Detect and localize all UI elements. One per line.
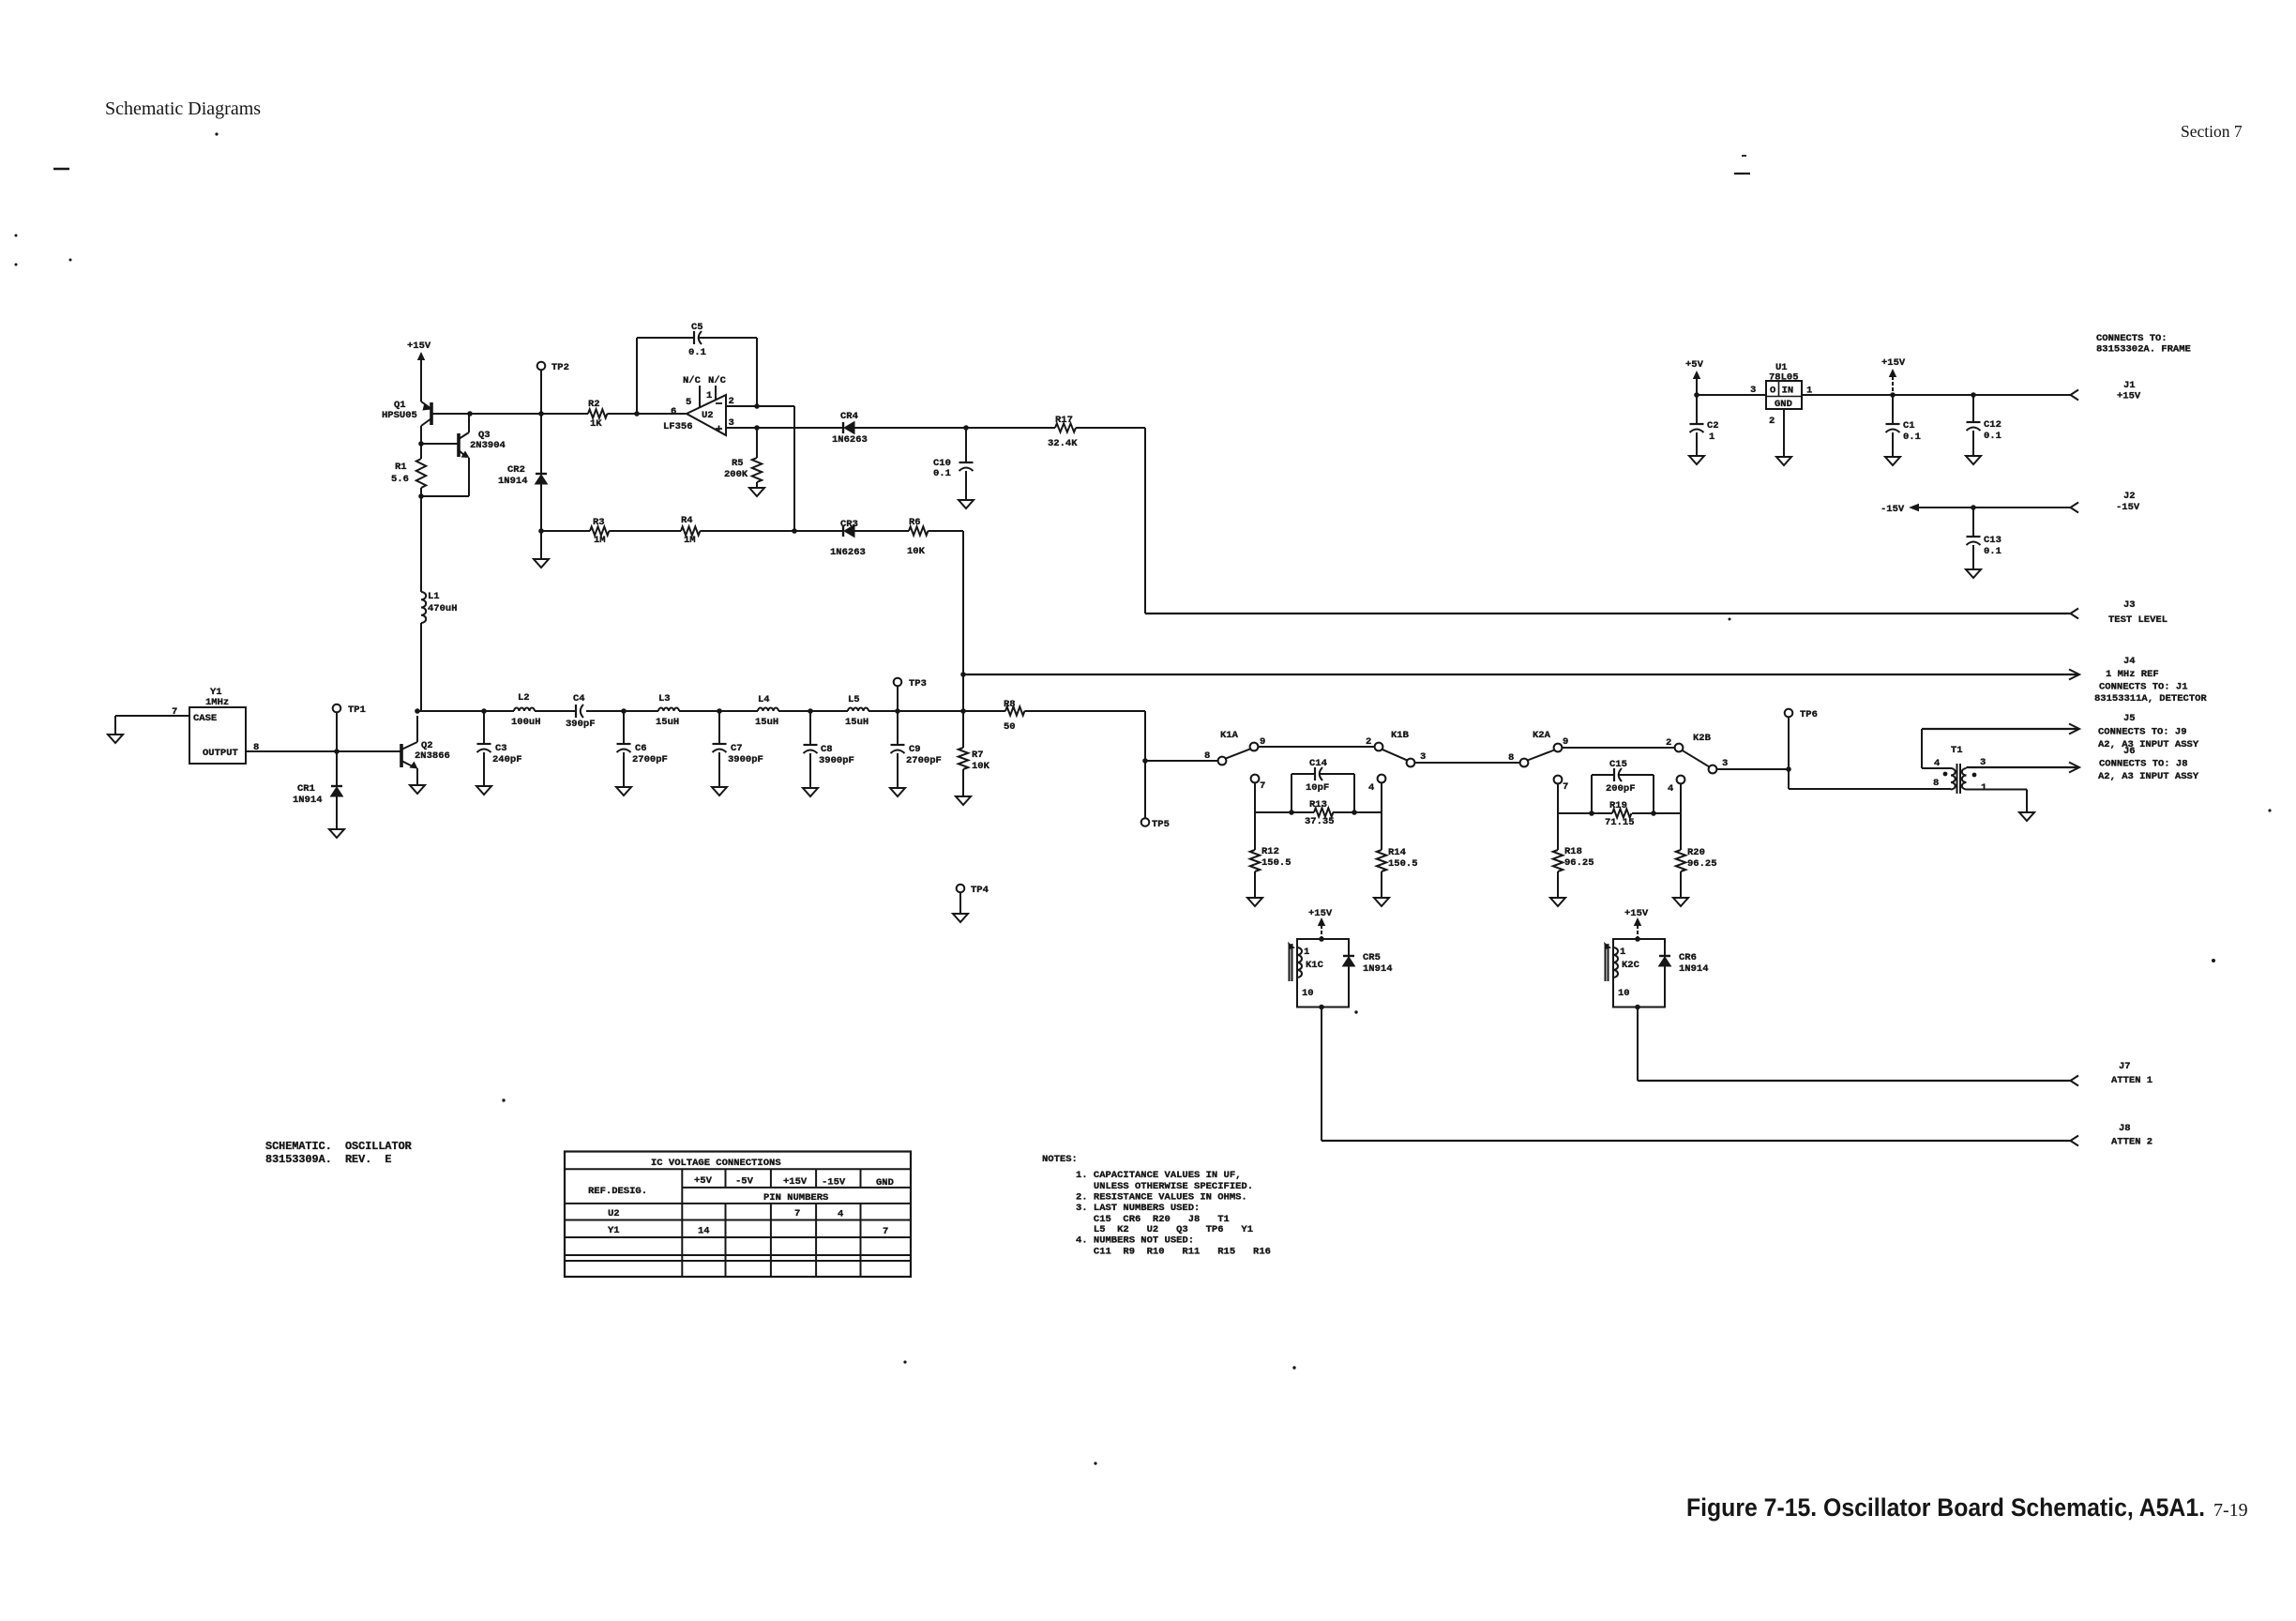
svg-text:C15: C15 bbox=[1609, 759, 1627, 770]
ground below TP4 bbox=[953, 914, 968, 922]
svg-text:R6: R6 bbox=[909, 517, 921, 528]
inductor L3 bbox=[658, 708, 679, 711]
resistor R18 bbox=[1557, 813, 1559, 850]
svg-text:150.5: 150.5 bbox=[1388, 858, 1418, 870]
wire L1 to Q2 collector node bbox=[420, 623, 422, 711]
svg-text:4: 4 bbox=[838, 1209, 843, 1220]
node C15 left junction bbox=[1589, 810, 1594, 816]
diode CR6 bbox=[1659, 955, 1670, 957]
connector J8 arrowhead bbox=[2071, 1136, 2079, 1146]
resistor R3 bbox=[590, 526, 609, 535]
capacitor C14 bbox=[1314, 767, 1316, 780]
svg-text:+15V: +15V bbox=[783, 1176, 808, 1188]
inductor L4 bbox=[758, 708, 778, 711]
wire C14 top right bbox=[1320, 773, 1354, 775]
wire C7 stem bbox=[718, 711, 720, 744]
wire C9 ground lead bbox=[897, 753, 899, 788]
wire K1C bottom to J8 line bbox=[1321, 1007, 1322, 1142]
svg-text:14: 14 bbox=[698, 1226, 710, 1237]
wire junction to Q3 base bbox=[421, 443, 459, 445]
svg-text:J2: J2 bbox=[2123, 491, 2136, 502]
ground below C12 bbox=[1966, 456, 1981, 464]
wire C6 ground lead bbox=[623, 752, 625, 787]
node +5V / C2 junction bbox=[1694, 392, 1699, 398]
node pin3 / R5 junction bbox=[754, 425, 760, 431]
wire C14 right riser bbox=[1353, 774, 1355, 812]
transformer T1 primary winding bbox=[1951, 768, 1956, 790]
node R1 bottom junction bbox=[418, 493, 424, 499]
wire C12 to ground bbox=[1972, 431, 1974, 456]
connector J7 arrowhead bbox=[2071, 1076, 2079, 1086]
svg-text:R17: R17 bbox=[1055, 415, 1073, 426]
wire C15 top left bbox=[1592, 774, 1614, 776]
svg-text:32.4K: 32.4K bbox=[1048, 438, 1078, 449]
svg-text:3: 3 bbox=[729, 417, 734, 429]
svg-text:96.25: 96.25 bbox=[1564, 857, 1594, 869]
svg-text:C8: C8 bbox=[821, 744, 833, 755]
test point TP4 bbox=[957, 885, 965, 893]
node C8 junction bbox=[808, 708, 813, 714]
svg-text:K2C: K2C bbox=[1622, 960, 1640, 971]
svg-text:C12: C12 bbox=[1984, 419, 2001, 431]
svg-text:UNLESS OTHERWISE SPECIFIED.: UNLESS OTHERWISE SPECIFIED. bbox=[1076, 1181, 1253, 1192]
svg-text:R19: R19 bbox=[1609, 800, 1627, 811]
svg-text:10K: 10K bbox=[972, 761, 990, 772]
node J4 junction bbox=[960, 672, 966, 677]
resistor R1 bbox=[420, 444, 422, 459]
svg-text:1K: 1K bbox=[590, 418, 602, 430]
wire K1A to K1B bbox=[1258, 746, 1374, 748]
test point TP2 bbox=[537, 362, 546, 371]
connector J5 arrowhead bbox=[2069, 724, 2079, 735]
svg-text:LF356: LF356 bbox=[663, 421, 693, 432]
svg-text:2: 2 bbox=[1769, 416, 1775, 427]
svg-text:1. CAPACITANCE VALUES IN UF,: 1. CAPACITANCE VALUES IN UF, bbox=[1076, 1170, 1241, 1181]
capacitor C4 (series) bbox=[575, 704, 577, 718]
svg-text:+15V: +15V bbox=[1881, 357, 1906, 369]
svg-text:A2, A3 INPUT ASSY: A2, A3 INPUT ASSY bbox=[2098, 771, 2199, 782]
capacitor C8 bbox=[804, 744, 818, 746]
diode CR2 bbox=[536, 473, 547, 475]
capacitor C6 bbox=[617, 743, 631, 745]
pin 1 N/C stub bbox=[715, 386, 717, 400]
wire R7 to ground bbox=[962, 769, 964, 796]
node C6 junction bbox=[621, 708, 627, 714]
resistor R7 bbox=[959, 748, 968, 769]
svg-text:Y1: Y1 bbox=[608, 1225, 620, 1236]
capacitor C1 bbox=[1892, 395, 1894, 424]
svg-text:R8: R8 bbox=[1004, 699, 1016, 710]
ground below T1 pin 1 bbox=[2019, 812, 2034, 821]
wire C3 ground lead bbox=[483, 752, 485, 786]
svg-text:R1: R1 bbox=[395, 462, 407, 473]
node C7 junction bbox=[717, 708, 722, 714]
regulator U1 78L05 box bbox=[1766, 381, 1802, 409]
svg-text:C11 R9 R10 R11 R15 R16: C11 R9 R10 R11 R15 R16 bbox=[1076, 1247, 1271, 1258]
svg-text:200K: 200K bbox=[724, 469, 748, 480]
svg-text:100uH: 100uH bbox=[511, 717, 541, 728]
svg-text:9: 9 bbox=[1563, 736, 1568, 748]
svg-text:R4: R4 bbox=[681, 515, 693, 526]
svg-text:2700pF: 2700pF bbox=[632, 754, 668, 765]
node CR2 bottom junction row B bbox=[538, 528, 544, 534]
capacitor C15 bbox=[1613, 768, 1615, 781]
wire C8 stem bbox=[809, 711, 811, 745]
svg-text:C4: C4 bbox=[573, 693, 585, 704]
svg-text:4: 4 bbox=[1934, 758, 1940, 769]
node opamp output / C5 junction bbox=[634, 411, 640, 417]
svg-text:J1: J1 bbox=[2123, 380, 2136, 391]
svg-text:C14: C14 bbox=[1309, 758, 1327, 769]
wire R2 to opamp output node bbox=[607, 413, 687, 415]
wire bus node down to R7 bbox=[962, 711, 964, 748]
svg-text:5: 5 bbox=[686, 397, 691, 408]
diode CR5 bbox=[1343, 955, 1354, 957]
svg-text:J8: J8 bbox=[2119, 1123, 2131, 1134]
ground below Q2 bbox=[410, 785, 425, 794]
wire C6 stem bbox=[623, 711, 625, 744]
resistor R14 bbox=[1381, 812, 1382, 850]
wire C5 left riser bbox=[636, 338, 638, 414]
wire down to ground below row B bbox=[540, 531, 542, 559]
node K2C bottom junction bbox=[1635, 1005, 1640, 1010]
svg-text:1N914: 1N914 bbox=[498, 476, 528, 487]
power +5V arrow bbox=[1693, 371, 1700, 379]
relay pin 4 contact (K1) bbox=[1378, 775, 1386, 783]
svg-text:10: 10 bbox=[1618, 988, 1630, 999]
wire J5 line bbox=[1922, 728, 2077, 730]
resistor R8 bbox=[1005, 706, 1024, 715]
ground below R5 bbox=[756, 482, 758, 488]
svg-text:7-19: 7-19 bbox=[2213, 1500, 2248, 1521]
capacitor C10 bbox=[959, 462, 974, 463]
svg-text:3900pF: 3900pF bbox=[819, 755, 854, 766]
svg-text:HPSU05: HPSU05 bbox=[382, 410, 417, 421]
node C10 junction bbox=[963, 425, 969, 431]
wire TP2 stem bbox=[540, 371, 542, 415]
wire TP1 stem bbox=[336, 713, 338, 752]
test point TP1 bbox=[333, 704, 341, 713]
wire C10 node to R17 bbox=[966, 427, 1055, 429]
svg-text:C6: C6 bbox=[635, 743, 647, 754]
node TP1 junction bbox=[334, 749, 340, 754]
wire Y1 case to ground bbox=[115, 715, 189, 717]
capacitor C12 bbox=[1972, 395, 1974, 422]
inductor L2 bbox=[514, 708, 535, 711]
svg-text:TP4: TP4 bbox=[971, 885, 989, 896]
wire TP3 node down to C9 bbox=[897, 711, 899, 745]
svg-text:+15V: +15V bbox=[1624, 908, 1649, 919]
wire R14 to ground bbox=[1381, 871, 1382, 898]
capacitor C2 bbox=[1696, 395, 1698, 424]
ground below C3 bbox=[476, 786, 491, 795]
node C14 right junction bbox=[1352, 810, 1357, 815]
wire J4 line bbox=[963, 674, 2077, 675]
svg-text:L2: L2 bbox=[518, 692, 530, 704]
svg-text:50: 50 bbox=[1004, 721, 1016, 733]
wire row B left segment bbox=[541, 530, 590, 532]
svg-text:REF.DESIG.: REF.DESIG. bbox=[588, 1186, 647, 1197]
wire C3 stem bbox=[483, 711, 485, 744]
svg-text:R13: R13 bbox=[1309, 799, 1327, 810]
svg-text:ATTEN 1: ATTEN 1 bbox=[2111, 1075, 2152, 1086]
svg-text:-15V: -15V bbox=[822, 1177, 846, 1189]
connector J1 arrowhead bbox=[2071, 390, 2079, 401]
svg-text:J4: J4 bbox=[2123, 656, 2136, 667]
wire pin2 corner down to row B bbox=[793, 406, 795, 531]
svg-text:8: 8 bbox=[1933, 778, 1939, 789]
svg-text:CR3: CR3 bbox=[840, 519, 858, 530]
svg-text:-15V: -15V bbox=[2116, 502, 2140, 513]
svg-text:TP1: TP1 bbox=[348, 704, 366, 716]
svg-text:CONNECTS TO:: CONNECTS TO: bbox=[2096, 333, 2168, 344]
wire U1 gnd pin down bbox=[1783, 409, 1785, 457]
svg-text:CR1: CR1 bbox=[297, 783, 315, 795]
svg-text:1M: 1M bbox=[684, 535, 696, 546]
svg-text:7: 7 bbox=[1563, 781, 1568, 793]
diode CR4 bbox=[842, 422, 844, 433]
svg-text:7: 7 bbox=[883, 1226, 888, 1237]
wire TP2 node down to CR2 bbox=[540, 414, 542, 474]
connector J6 arrowhead bbox=[2069, 763, 2079, 773]
power +15V arrow above K2C bbox=[1634, 917, 1641, 926]
test point TP6 bbox=[1785, 709, 1793, 718]
wire J7 line bbox=[1638, 1080, 2071, 1082]
relay pin 4 contact (K2) bbox=[1677, 776, 1685, 784]
relay contact K2A bbox=[1520, 759, 1529, 767]
opamp plus sign bbox=[716, 428, 722, 430]
svg-text:8: 8 bbox=[1204, 750, 1210, 762]
relay coil box K2C bbox=[1613, 939, 1665, 1007]
svg-text:A2, A3 INPUT ASSY: A2, A3 INPUT ASSY bbox=[2098, 739, 2199, 750]
pin 5 N/C stub bbox=[699, 386, 701, 407]
wire C14 top left bbox=[1291, 773, 1315, 775]
wire C15 right riser bbox=[1653, 775, 1654, 813]
svg-text:1: 1 bbox=[1620, 947, 1625, 958]
svg-text:2: 2 bbox=[729, 396, 734, 407]
svg-text:6: 6 bbox=[671, 406, 676, 417]
svg-text:390pF: 390pF bbox=[566, 719, 596, 730]
node bus junction at R7 column bbox=[960, 708, 966, 714]
power +15V arrow (J1 row) bbox=[1889, 369, 1896, 377]
relay contact K1A bbox=[1218, 757, 1227, 765]
wire R4 to pin2 corner node bbox=[700, 530, 794, 532]
node pin2 / C5 junction bbox=[754, 403, 760, 409]
capacitor C13 bbox=[1972, 508, 1974, 537]
svg-text:15uH: 15uH bbox=[656, 717, 679, 728]
svg-text:CASE: CASE bbox=[193, 713, 217, 724]
wire TP6 stem bbox=[1788, 718, 1790, 770]
wire CR1 to ground bbox=[336, 796, 338, 829]
svg-text:TP2: TP2 bbox=[551, 362, 569, 373]
relay pin 7 contact (K2) bbox=[1554, 776, 1563, 784]
ground below R7 bbox=[956, 796, 971, 805]
wire junction to CR3 bbox=[794, 530, 843, 532]
svg-text:4: 4 bbox=[1368, 782, 1374, 794]
svg-text:CONNECTS TO: J1: CONNECTS TO: J1 bbox=[2099, 682, 2188, 693]
svg-text:4: 4 bbox=[1668, 783, 1673, 795]
svg-text:0.1: 0.1 bbox=[933, 468, 951, 479]
svg-text:1MHz: 1MHz bbox=[205, 697, 229, 708]
resistor R12 bbox=[1254, 812, 1256, 850]
svg-text:83153302A. FRAME: 83153302A. FRAME bbox=[2096, 344, 2191, 356]
wire CR3 to R6 bbox=[854, 530, 909, 532]
node TP5 junction bbox=[1142, 758, 1148, 764]
svg-text:78L05: 78L05 bbox=[1769, 372, 1799, 384]
svg-text:TP3: TP3 bbox=[909, 678, 927, 689]
node C13 junction bbox=[1971, 505, 1976, 510]
svg-text:C1: C1 bbox=[1903, 420, 1915, 432]
node row B / pin2 riser junction bbox=[792, 528, 797, 534]
svg-text:U2: U2 bbox=[608, 1208, 620, 1220]
svg-text:7: 7 bbox=[1260, 780, 1265, 792]
diode CR1 bbox=[331, 785, 342, 787]
wire pin4 to rail (K1) bbox=[1381, 782, 1382, 812]
wire R6 to corner down bbox=[928, 530, 963, 532]
test point TP5 bbox=[1141, 818, 1150, 826]
capacitor C7 bbox=[713, 743, 727, 745]
svg-text:+15V: +15V bbox=[2117, 391, 2141, 402]
resistor R5 bbox=[756, 428, 758, 458]
svg-text:2700pF: 2700pF bbox=[906, 755, 942, 766]
svg-text:1: 1 bbox=[1709, 432, 1714, 443]
svg-text:GND: GND bbox=[1775, 399, 1792, 410]
transistor Q2 2N3866 bbox=[400, 744, 403, 767]
wire TP3 stem bbox=[897, 687, 899, 712]
svg-text:K2A: K2A bbox=[1533, 730, 1551, 741]
relay contact K1B bbox=[1375, 743, 1383, 751]
ground below R12 bbox=[1247, 898, 1262, 906]
node TP2 junction on row bbox=[538, 411, 544, 417]
svg-text:3: 3 bbox=[1750, 385, 1756, 396]
resistor R17 bbox=[1055, 423, 1076, 432]
node Q1 base / Q3 collector junction bbox=[467, 411, 473, 417]
svg-text:1N914: 1N914 bbox=[1363, 963, 1393, 975]
wire C10 stem bbox=[965, 428, 967, 462]
wire pin7 to rail (K1) bbox=[1254, 782, 1256, 812]
svg-text:83153311A, DETECTOR: 83153311A, DETECTOR bbox=[2094, 693, 2207, 704]
svg-text:L1: L1 bbox=[428, 591, 440, 602]
wire R18 to ground bbox=[1557, 871, 1559, 898]
svg-text:K1B: K1B bbox=[1391, 730, 1410, 741]
wire TP6 node down and right to T1 pin 8 bbox=[1788, 769, 1790, 789]
transistor Q1 HPSU05 bbox=[430, 402, 433, 425]
wire C1 to ground bbox=[1892, 432, 1894, 457]
svg-text:NOTES:: NOTES: bbox=[1042, 1154, 1078, 1165]
svg-text:240pF: 240pF bbox=[492, 754, 522, 765]
ground below R14 bbox=[1374, 898, 1389, 906]
wire TP4 stem bbox=[959, 893, 961, 915]
wire C8 ground lead bbox=[809, 753, 811, 788]
node C15 right junction bbox=[1651, 810, 1656, 816]
wire R12 to ground bbox=[1254, 871, 1256, 898]
ground below R18 bbox=[1550, 898, 1565, 906]
wire CR4 to C10 node bbox=[854, 427, 966, 429]
svg-text:+5V: +5V bbox=[1685, 359, 1704, 371]
pin 2 wire from opamp bbox=[726, 405, 794, 407]
ground below CR2 node bbox=[534, 559, 549, 568]
power +15V arrow above K1C bbox=[1318, 917, 1325, 926]
svg-text:K1A: K1A bbox=[1220, 730, 1239, 741]
wire C5 right riser to pin 2 node bbox=[756, 338, 758, 406]
wire TP5 drop bbox=[1144, 761, 1146, 818]
wire C5 top left segment bbox=[637, 337, 694, 339]
wire TP1 node down to CR1 bbox=[336, 751, 338, 786]
wire J8 line bbox=[1322, 1140, 2071, 1142]
resistor R2 bbox=[588, 409, 607, 417]
svg-text:0.1: 0.1 bbox=[1984, 546, 2001, 557]
svg-text:C7: C7 bbox=[731, 743, 743, 754]
svg-text:7: 7 bbox=[794, 1208, 800, 1220]
ground below C1 bbox=[1885, 457, 1900, 465]
transformer T1 core bbox=[1956, 764, 1958, 794]
node TP3 junction bbox=[895, 708, 900, 714]
svg-text:2N3904: 2N3904 bbox=[470, 440, 506, 451]
svg-text:SCHEMATIC. OSCILLATOR: SCHEMATIC. OSCILLATOR bbox=[265, 1140, 413, 1153]
svg-text:37.35: 37.35 bbox=[1305, 816, 1335, 827]
wire +5V node to U1 pin3 bbox=[1697, 394, 1766, 396]
wire main bus bbox=[417, 710, 514, 712]
svg-text:3900pF: 3900pF bbox=[728, 754, 763, 765]
svg-text:L5: L5 bbox=[848, 694, 860, 705]
svg-text:83153309A. REV. E: 83153309A. REV. E bbox=[265, 1153, 392, 1166]
crystal Y1 box bbox=[189, 707, 246, 764]
wire K2B to TP6 node bbox=[1716, 768, 1789, 770]
opamp minus sign bbox=[716, 402, 722, 404]
svg-text:2. RESISTANCE VALUES IN OHMS.: 2. RESISTANCE VALUES IN OHMS. bbox=[1076, 1192, 1247, 1204]
wire C10 to ground bbox=[965, 471, 967, 500]
svg-text:J3: J3 bbox=[2123, 599, 2136, 611]
svg-text:U2: U2 bbox=[702, 410, 714, 421]
wire J5 riser and pin4 lead bbox=[1921, 729, 1923, 768]
svg-text:T1: T1 bbox=[1951, 745, 1963, 756]
svg-text:0.1: 0.1 bbox=[1984, 431, 2001, 442]
node TP6 junction bbox=[1786, 766, 1791, 772]
svg-text:96.25: 96.25 bbox=[1687, 858, 1717, 870]
node K1C bottom junction bbox=[1319, 1005, 1324, 1010]
diode CR3 bbox=[842, 525, 844, 537]
power +15V arrow bbox=[417, 352, 425, 360]
resistor R4 bbox=[681, 526, 700, 535]
wire C2 to ground bbox=[1696, 432, 1698, 456]
svg-text:TP6: TP6 bbox=[1800, 709, 1818, 720]
svg-text:+15V: +15V bbox=[407, 341, 431, 352]
connector J4 arrowhead bbox=[2069, 670, 2079, 680]
svg-text:C9: C9 bbox=[909, 744, 921, 755]
wire TP1 node to Q2 base bbox=[337, 750, 401, 752]
svg-text:CONNECTS TO: J9: CONNECTS TO: J9 bbox=[2098, 727, 2187, 738]
svg-text:1M: 1M bbox=[594, 535, 606, 546]
wire R3 to R4 bbox=[609, 530, 681, 532]
stray scan marks bbox=[53, 168, 69, 171]
svg-text:TEST LEVEL: TEST LEVEL bbox=[2108, 614, 2168, 626]
wire C15 top right bbox=[1619, 774, 1654, 776]
svg-text:PIN NUMBERS: PIN NUMBERS bbox=[763, 1192, 828, 1204]
resistor R13 bbox=[1314, 808, 1333, 816]
svg-text:ATTEN 2: ATTEN 2 bbox=[2111, 1137, 2152, 1148]
relay coil box K1C bbox=[1297, 939, 1349, 1007]
wire junction down to bus bbox=[962, 674, 964, 711]
svg-text:K1C: K1C bbox=[1306, 960, 1324, 971]
svg-text:10: 10 bbox=[1302, 988, 1314, 999]
svg-text:L3: L3 bbox=[658, 693, 671, 704]
capacitor C9 bbox=[891, 744, 905, 746]
svg-text:1 MHz REF: 1 MHz REF bbox=[2106, 669, 2159, 680]
svg-text:GND: GND bbox=[876, 1177, 894, 1189]
wire J3 line bbox=[1145, 613, 2071, 614]
svg-text:R20: R20 bbox=[1687, 847, 1705, 858]
transformer T1 secondary winding bbox=[1962, 768, 1967, 790]
